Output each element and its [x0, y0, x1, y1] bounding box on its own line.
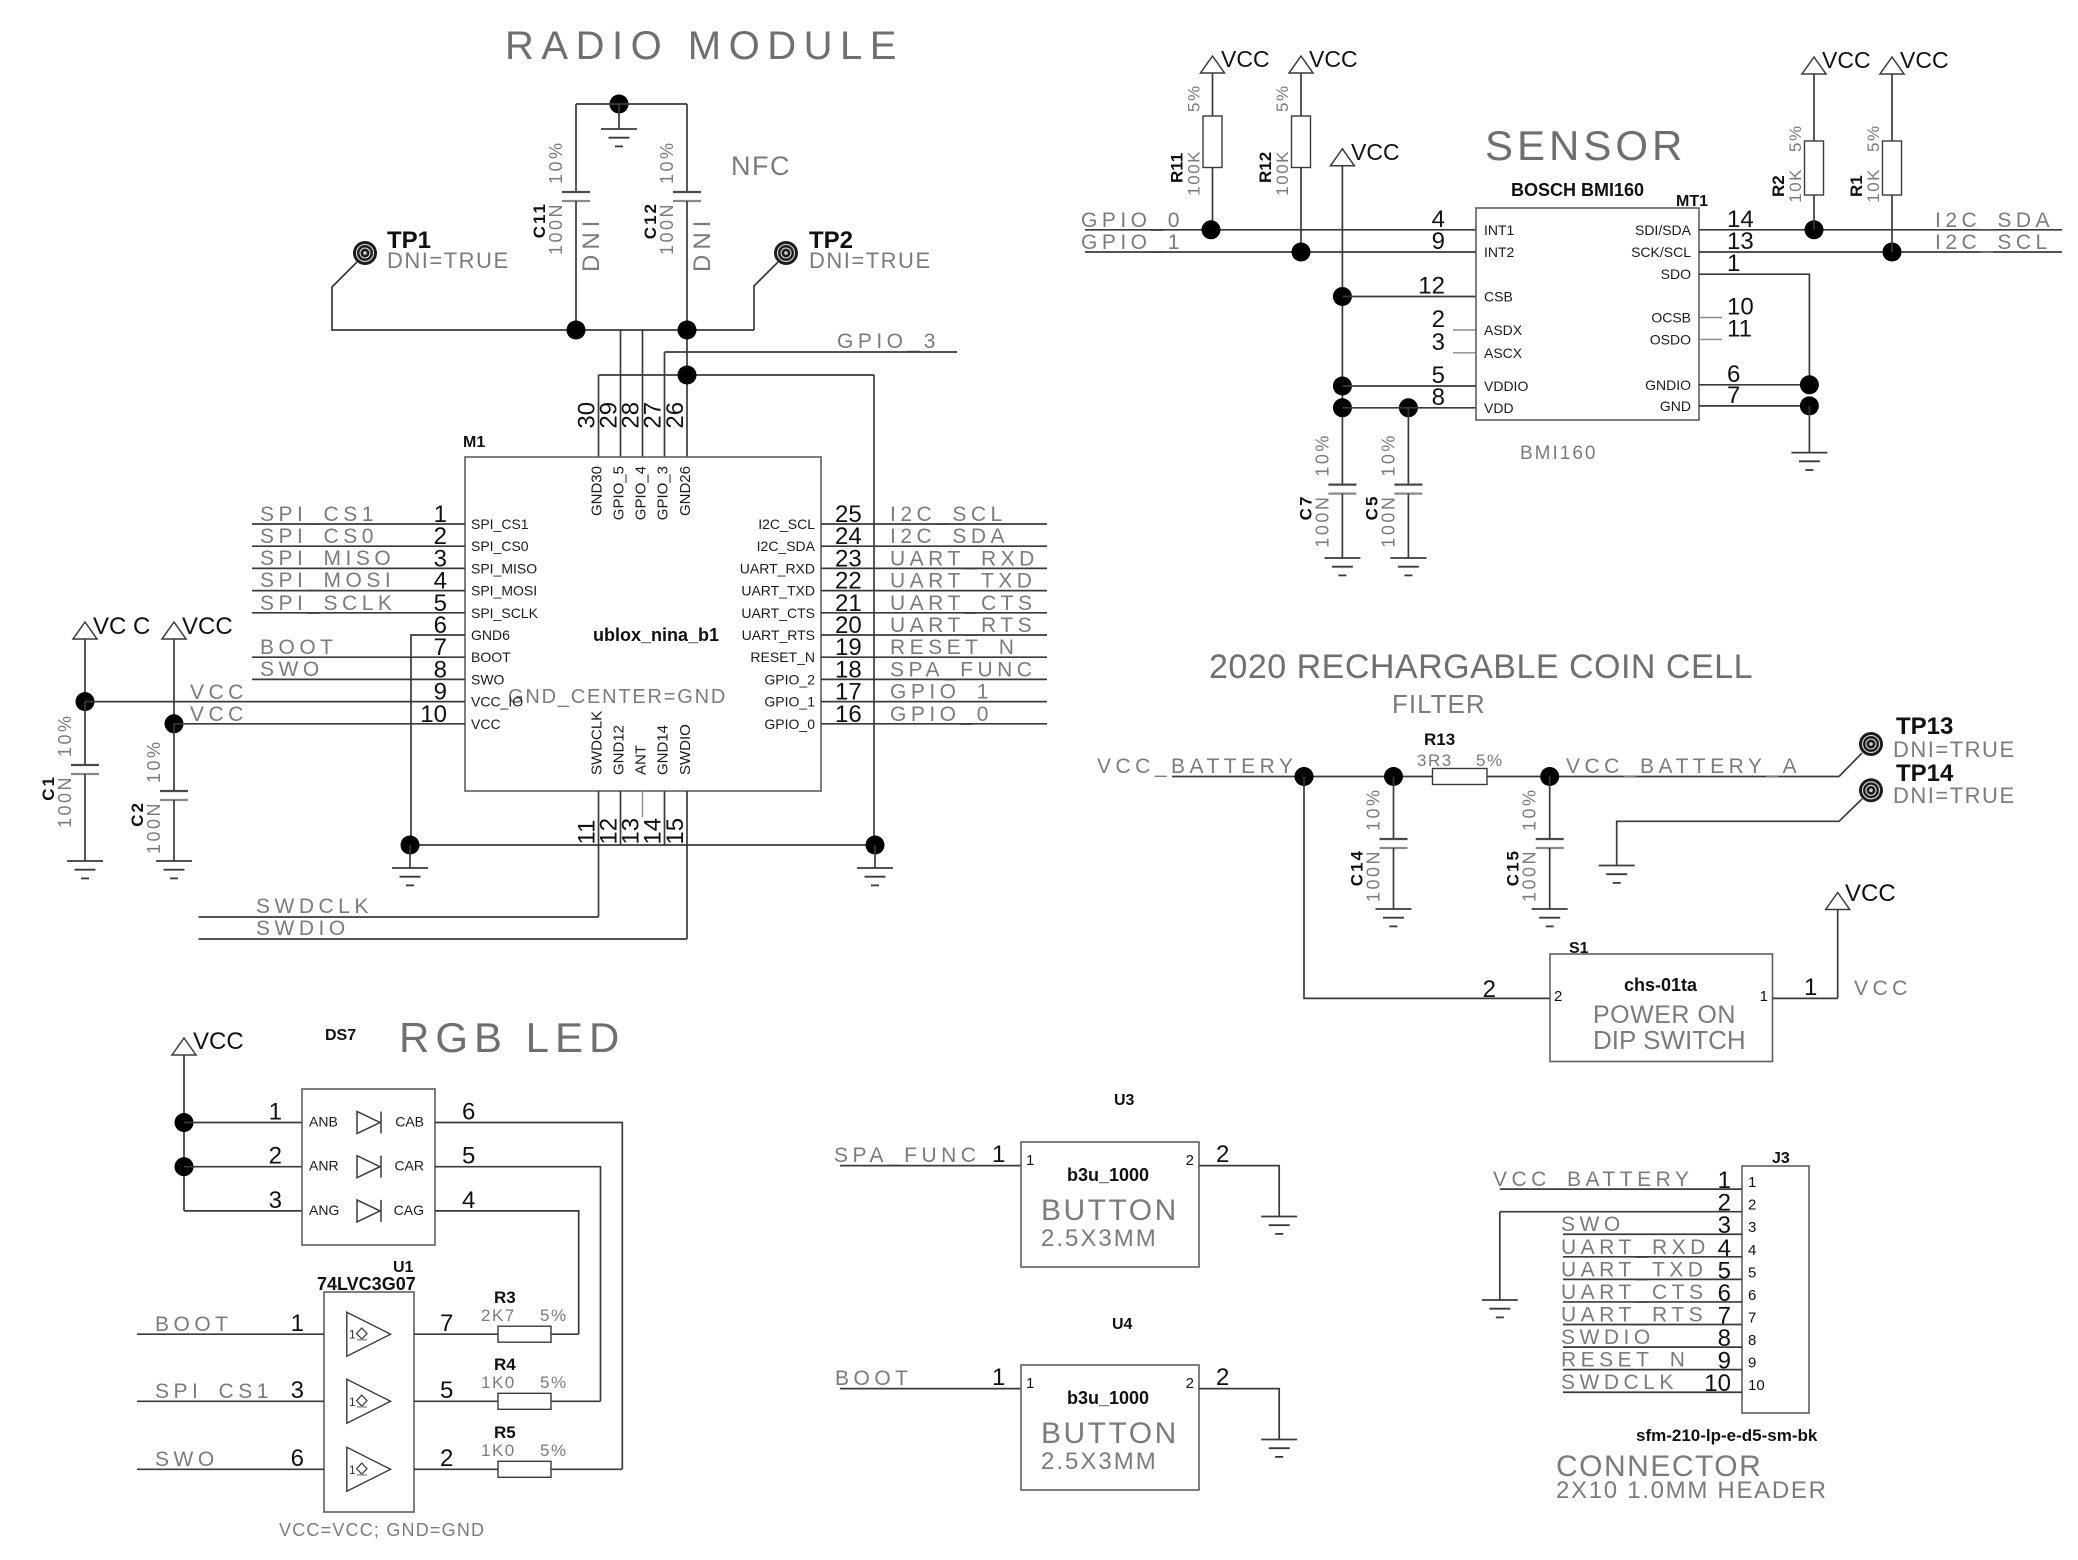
svg-text:ANG: ANG	[309, 1202, 339, 1218]
resistor R3	[481, 1288, 579, 1342]
svg-text:RESET_N: RESET_N	[890, 636, 1018, 659]
svg-text:BUTTON: BUTTON	[1041, 1194, 1179, 1227]
switch S1 chs-01ta POWER ON DIP SWITCH	[1483, 940, 1773, 1062]
DS7 pin names, numbers and diodes	[269, 1099, 476, 1222]
svg-text:1: 1	[1760, 988, 1768, 1005]
svg-text:3: 3	[269, 1187, 282, 1214]
svg-text:CSB: CSB	[1484, 289, 1513, 305]
svg-text:1: 1	[349, 1328, 356, 1342]
svg-text:SWDIO: SWDIO	[1561, 1326, 1655, 1349]
MT1 pin names and numbers	[1418, 206, 1753, 416]
svg-text:VCC: VCC	[193, 1028, 244, 1055]
module M1 ublox_nina_b1	[463, 434, 821, 791]
svg-text:BOOT: BOOT	[471, 649, 511, 665]
svg-text:2: 2	[1186, 1152, 1194, 1169]
svg-text:SWDCLK: SWDCLK	[256, 895, 373, 918]
net I2C_SDA (right of M1)	[821, 525, 1047, 548]
svg-text:2: 2	[1483, 976, 1496, 1003]
svg-text:VCC: VCC	[190, 681, 248, 704]
net GPIO_3	[665, 330, 958, 457]
svg-text:10K: 10K	[1786, 168, 1805, 203]
svg-text:74LVC3G07: 74LVC3G07	[317, 1274, 416, 1294]
svg-text:VCC: VCC	[1845, 880, 1896, 907]
net UART_RXD (right of M1)	[821, 547, 1047, 570]
svg-text:b3u_1000: b3u_1000	[1067, 1388, 1149, 1408]
wire SDO	[1699, 274, 1809, 385]
svg-text:6: 6	[1748, 1287, 1756, 1304]
svg-text:SCK/SCL: SCK/SCL	[1631, 244, 1691, 260]
test point TP14	[1859, 760, 2016, 808]
ground (TP14)	[1599, 865, 1635, 867]
svg-text:RGB LED: RGB LED	[399, 1014, 625, 1061]
svg-text:UART_CTS: UART_CTS	[890, 592, 1036, 615]
wire CAB to R5	[435, 1123, 622, 1470]
svg-text:ANT: ANT	[633, 745, 650, 775]
svg-text:1: 1	[349, 1463, 356, 1477]
svg-text:SWO: SWO	[471, 671, 505, 687]
wire VCC to M1 pin9	[76, 692, 466, 711]
wire U3 pin2 to ground	[1199, 1141, 1279, 1217]
svg-text:2: 2	[1216, 1364, 1229, 1391]
svg-text:VCC: VCC	[190, 703, 248, 726]
svg-text:M1: M1	[463, 434, 485, 451]
svg-text:I2C_SCL: I2C_SCL	[1935, 231, 2052, 254]
svg-text:12: 12	[1418, 273, 1445, 300]
button U3 b3u_1000	[1021, 1092, 1199, 1267]
power VCC (C2)	[162, 613, 233, 724]
svg-text:10%: 10%	[657, 140, 677, 184]
svg-text:SENSOR: SENSOR	[1485, 122, 1686, 169]
ground (C1)	[67, 860, 103, 862]
net BOOT (U1 pin1)	[137, 1310, 324, 1337]
net GPIO_0 (right of M1)	[821, 703, 1047, 726]
svg-text:1: 1	[992, 1141, 1005, 1168]
svg-text:GPIO_0: GPIO_0	[764, 716, 815, 732]
svg-text:R4: R4	[494, 1355, 516, 1374]
svg-text:RESET_N: RESET_N	[750, 649, 815, 665]
svg-text:10%: 10%	[546, 140, 566, 184]
capacitor C1	[39, 702, 99, 861]
capacitor C14	[1348, 777, 1408, 910]
svg-text:VCC: VCC	[1854, 977, 1912, 1000]
resistor R12	[1256, 46, 1358, 252]
ground (C14)	[1376, 908, 1412, 910]
svg-text:FILTER: FILTER	[1392, 689, 1486, 719]
resistor R4	[481, 1355, 601, 1409]
svg-text:8: 8	[1432, 384, 1445, 411]
svg-text:SPI_CS1: SPI_CS1	[471, 516, 529, 532]
svg-text:10K: 10K	[1864, 168, 1883, 203]
svg-text:3R3: 3R3	[1417, 751, 1453, 770]
svg-text:6: 6	[462, 1099, 475, 1126]
wire NFC top rail	[576, 103, 687, 105]
svg-text:1: 1	[1026, 1152, 1034, 1169]
svg-text:DNI=TRUE: DNI=TRUE	[387, 248, 510, 273]
svg-text:1: 1	[1804, 974, 1817, 1001]
svg-text:GPIO_1: GPIO_1	[764, 694, 815, 710]
net UART_CTS (right of M1)	[821, 592, 1047, 615]
wire U1 pin7 to R3	[414, 1310, 498, 1337]
net SPI_CS0 (M1 pin2)	[252, 525, 465, 548]
svg-text:SWO: SWO	[1561, 1213, 1625, 1236]
svg-text:26: 26	[662, 402, 689, 429]
svg-text:SWDIO: SWDIO	[256, 917, 350, 940]
svg-text:7: 7	[1727, 382, 1740, 409]
connector J3	[1556, 1150, 1828, 1504]
test point TP1	[353, 227, 510, 273]
svg-text:I2C_SDA: I2C_SDA	[890, 525, 1009, 548]
svg-text:GND12: GND12	[611, 725, 628, 775]
svg-text:RESET_N: RESET_N	[1561, 1349, 1689, 1372]
svg-text:100N: 100N	[1520, 849, 1540, 902]
svg-text:DNI=TRUE: DNI=TRUE	[1893, 783, 2016, 808]
net SWDCLK (pin11)	[199, 791, 599, 918]
svg-text:R5: R5	[494, 1423, 516, 1442]
svg-text:100N: 100N	[546, 202, 566, 255]
svg-text:4: 4	[1748, 1242, 1756, 1259]
svg-text:SWDCLK: SWDCLK	[589, 711, 606, 775]
svg-text:10%: 10%	[1312, 433, 1332, 477]
svg-text:UART_TXD: UART_TXD	[890, 570, 1036, 593]
svg-text:MT1: MT1	[1676, 193, 1708, 210]
junction dots NFC rail	[567, 321, 586, 340]
test point TP13	[1859, 713, 2016, 762]
svg-text:100N: 100N	[1364, 849, 1384, 902]
svg-text:ASDX: ASDX	[1484, 322, 1523, 338]
wire ASCX stub	[1453, 352, 1476, 354]
net VCC_BATTERY	[1097, 755, 1433, 786]
svg-text:VC C: VC C	[93, 613, 150, 640]
net BOOT (button U4)	[835, 1364, 1021, 1391]
svg-text:BUTTON: BUTTON	[1041, 1417, 1179, 1450]
svg-text:I2C_SDA: I2C_SDA	[1935, 209, 2054, 232]
svg-text:1: 1	[291, 1310, 304, 1337]
net VCC_BATTERY_A	[1487, 755, 1839, 786]
M1 pin names and numbers	[420, 402, 861, 845]
svg-text:1: 1	[1727, 250, 1740, 277]
ground (M1 left)	[392, 845, 428, 885]
wire OCSB stub	[1699, 317, 1722, 319]
svg-text:VCC=VCC; GND=GND: VCC=VCC; GND=GND	[279, 1520, 485, 1540]
svg-text:GND26: GND26	[677, 466, 694, 516]
ground (C15)	[1532, 908, 1568, 910]
svg-text:U4: U4	[1112, 1316, 1133, 1333]
svg-text:VCC: VCC	[1900, 47, 1949, 73]
svg-text:GPIO_1: GPIO_1	[890, 681, 993, 704]
svg-text:BMI160: BMI160	[1520, 443, 1597, 464]
svg-text:5%: 5%	[1273, 84, 1292, 112]
svg-text:VCC_BATTERY: VCC_BATTERY	[1493, 1168, 1693, 1191]
svg-text:SPA_FUNC: SPA_FUNC	[834, 1144, 980, 1167]
ground (M1 right)	[857, 845, 893, 885]
svg-text:SPI_MISO: SPI_MISO	[471, 560, 537, 576]
wire VDDIO	[1333, 377, 1476, 396]
wire GND14 (pin14)	[664, 791, 666, 845]
svg-text:VCC: VCC	[182, 613, 233, 640]
wire ASDX stub	[1453, 329, 1476, 331]
svg-text:SPI_CS1: SPI_CS1	[260, 503, 378, 526]
wire CSB	[1333, 287, 1476, 306]
svg-text:1K0: 1K0	[481, 1373, 516, 1392]
svg-text:INT2: INT2	[1484, 244, 1515, 260]
wire CAG to R3	[435, 1211, 579, 1334]
svg-text:BOSCH BMI160: BOSCH BMI160	[1511, 180, 1644, 200]
net RESET_N (right of M1)	[821, 636, 1047, 659]
svg-text:1: 1	[1748, 1174, 1756, 1191]
svg-text:9: 9	[1748, 1355, 1756, 1372]
svg-text:10%: 10%	[1520, 787, 1540, 831]
wire to TP13	[1839, 753, 1862, 777]
svg-text:UART_RXD: UART_RXD	[1561, 1236, 1710, 1259]
svg-text:2.5X3MM: 2.5X3MM	[1041, 1448, 1158, 1475]
svg-text:ASCX: ASCX	[1484, 345, 1523, 361]
wire VDD	[1333, 398, 1476, 417]
svg-text:SWDIO: SWDIO	[677, 724, 694, 775]
svg-text:RADIO MODULE: RADIO MODULE	[505, 24, 904, 68]
wire LED anodes	[175, 1113, 303, 1211]
svg-text:DNI: DNI	[689, 216, 716, 272]
svg-text:I2C_SDA: I2C_SDA	[757, 538, 816, 554]
svg-text:GPIO_0: GPIO_0	[1081, 209, 1184, 232]
svg-text:VDDIO: VDDIO	[1484, 378, 1528, 394]
svg-text:5%: 5%	[1864, 124, 1883, 152]
svg-text:2: 2	[269, 1143, 282, 1170]
svg-text:10%: 10%	[144, 739, 164, 783]
svg-text:SDO: SDO	[1661, 266, 1691, 282]
LED DS7	[302, 1027, 435, 1245]
wire GND (MT1)	[1699, 396, 1819, 415]
wire ANT stub (pin13)	[642, 791, 644, 817]
svg-text:7: 7	[440, 1310, 453, 1337]
svg-text:b3u_1000: b3u_1000	[1067, 1165, 1149, 1185]
wire VCC to M1 pin10	[165, 714, 466, 733]
svg-text:GPIO_0: GPIO_0	[890, 703, 993, 726]
wire pin28 GPIO_4	[642, 330, 644, 457]
svg-text:4: 4	[462, 1187, 475, 1214]
svg-text:3: 3	[1432, 329, 1445, 356]
power VCC (C1)	[73, 613, 150, 702]
wire OSDO stub	[1699, 338, 1722, 340]
svg-text:VCC: VCC	[471, 716, 501, 732]
net SPI_SCLK (M1 pin5)	[252, 592, 465, 615]
wire U1 pin5 to R4	[414, 1377, 498, 1404]
svg-text:UART_RXD: UART_RXD	[890, 547, 1039, 570]
svg-text:2020 RECHARGABLE COIN CELL: 2020 RECHARGABLE COIN CELL	[1209, 648, 1753, 686]
svg-text:BOOT: BOOT	[260, 636, 338, 659]
svg-text:5%: 5%	[540, 1373, 568, 1392]
wire battery to switch S1 pin2	[1304, 777, 1550, 999]
U1 buffer symbols	[347, 1312, 391, 1491]
svg-text:7: 7	[1748, 1310, 1756, 1327]
svg-text:1: 1	[269, 1099, 282, 1126]
svg-text:BOOT: BOOT	[835, 1367, 913, 1390]
capacitor C7	[1296, 433, 1356, 558]
svg-text:100N: 100N	[1312, 495, 1332, 548]
ground (U3)	[1261, 1216, 1297, 1218]
svg-text:VCC: VCC	[1221, 46, 1270, 72]
net SPI_MOSI (M1 pin4)	[252, 569, 465, 592]
net SPI_MISO (M1 pin3)	[252, 547, 465, 570]
svg-text:10%: 10%	[1364, 787, 1384, 831]
net SPA_FUNC (button U3)	[834, 1141, 1021, 1168]
svg-text:NFC: NFC	[731, 151, 791, 181]
svg-text:UART_RXD: UART_RXD	[740, 560, 815, 576]
svg-text:ANB: ANB	[309, 1114, 338, 1130]
net SWDIO (pin15)	[199, 791, 688, 940]
ground (C2)	[156, 860, 192, 862]
svg-text:GND14: GND14	[655, 725, 672, 775]
wire GND12 (pin12)	[620, 791, 622, 845]
test point TP2	[774, 227, 932, 273]
svg-text:5%: 5%	[1476, 751, 1504, 770]
wire pin29 GPIO_5	[620, 330, 622, 457]
net SWO (M1 pin8)	[252, 658, 465, 681]
resistor R11	[1168, 46, 1270, 230]
net SPI_CS1 (U1 pin3)	[137, 1377, 324, 1404]
J3 pin rows	[1493, 1167, 1765, 1397]
svg-text:GND6: GND6	[471, 627, 510, 643]
sensor MT1 BOSCH BMI160	[1476, 180, 1708, 464]
svg-text:OSDO: OSDO	[1650, 331, 1691, 347]
wire U1 pin2 to R5	[414, 1445, 498, 1472]
net I2C_SCL (right of M1)	[821, 503, 1047, 526]
net GPIO_1 to INT2	[1081, 231, 1476, 262]
resistor R2	[1769, 47, 1871, 230]
wire CAR to R4	[435, 1167, 601, 1402]
net UART_RTS (right of M1)	[821, 614, 1047, 637]
ground (U4)	[1261, 1439, 1297, 1441]
svg-text:6: 6	[291, 1445, 304, 1472]
resistor R1	[1847, 47, 1949, 252]
svg-text:SDI/SDA: SDI/SDA	[1635, 222, 1692, 238]
svg-text:GPIO_4: GPIO_4	[633, 466, 650, 520]
svg-text:2X10 1.0MM HEADER: 2X10 1.0MM HEADER	[1556, 1477, 1828, 1504]
ground (C7)	[1324, 557, 1360, 559]
svg-text:100N: 100N	[657, 202, 677, 255]
svg-text:SWO: SWO	[155, 1448, 219, 1471]
net GPIO_1 (right of M1)	[821, 681, 1047, 704]
capacitor C5	[1362, 408, 1422, 558]
svg-text:U3: U3	[1114, 1092, 1135, 1109]
svg-text:SPI_MOSI: SPI_MOSI	[471, 583, 537, 599]
svg-text:5%: 5%	[540, 1441, 568, 1460]
wire U4 pin2 to ground	[1199, 1364, 1279, 1440]
svg-text:SWDCLK: SWDCLK	[1561, 1371, 1678, 1394]
wire GND6 (M1 pin6)	[411, 635, 465, 845]
svg-text:GND: GND	[1660, 398, 1691, 414]
svg-text:VCC_BATTERY: VCC_BATTERY	[1097, 755, 1297, 778]
svg-text:CAR: CAR	[394, 1158, 424, 1174]
wire S1 pin1 to VCC	[1773, 910, 1838, 1001]
svg-text:VCC: VCC	[1351, 139, 1400, 165]
svg-text:3: 3	[1748, 1219, 1756, 1236]
capacitor C2	[128, 724, 188, 861]
svg-text:BOOT: BOOT	[155, 1313, 233, 1336]
svg-text:DS7: DS7	[325, 1027, 356, 1044]
ground (J3)	[1482, 1299, 1518, 1301]
wire TP14 to ground	[1617, 799, 1862, 866]
svg-text:9: 9	[1432, 228, 1445, 255]
svg-text:OCSB: OCSB	[1651, 310, 1691, 326]
svg-text:1: 1	[1026, 1375, 1034, 1392]
svg-text:SPI_SCLK: SPI_SCLK	[260, 592, 396, 615]
svg-text:CAB: CAB	[395, 1114, 424, 1130]
svg-text:GPIO_1: GPIO_1	[1081, 231, 1184, 254]
svg-text:UART_CTS: UART_CTS	[1561, 1281, 1707, 1304]
svg-text:GND_CENTER=GND: GND_CENTER=GND	[508, 686, 727, 708]
svg-text:3: 3	[291, 1377, 304, 1404]
svg-text:J3: J3	[1772, 1150, 1790, 1167]
svg-text:I2C_SCL: I2C_SCL	[758, 516, 815, 532]
svg-text:sfm-210-lp-e-d5-sm-bk: sfm-210-lp-e-d5-sm-bk	[1636, 1426, 1818, 1445]
svg-text:SPI_CS0: SPI_CS0	[260, 525, 378, 548]
net SPI_CS1 (M1 pin1)	[252, 503, 465, 526]
svg-text:11: 11	[1727, 315, 1752, 342]
svg-text:15: 15	[662, 818, 689, 845]
svg-text:R3: R3	[494, 1288, 516, 1307]
svg-text:GNDIO: GNDIO	[1645, 377, 1691, 393]
svg-text:SPI_CS1: SPI_CS1	[155, 1380, 273, 1403]
svg-text:100N: 100N	[55, 775, 75, 828]
svg-text:GPIO_3: GPIO_3	[837, 330, 940, 353]
svg-text:VDD: VDD	[1484, 400, 1514, 416]
wire J3 pin2 to ground	[1499, 1212, 1501, 1300]
svg-text:10%: 10%	[55, 713, 75, 757]
svg-text:R13: R13	[1424, 730, 1455, 749]
svg-text:SPI_SCLK: SPI_SCLK	[471, 605, 539, 621]
svg-text:SPI_MOSI: SPI_MOSI	[260, 569, 395, 592]
svg-text:2: 2	[440, 1445, 453, 1472]
svg-text:UART_RTS: UART_RTS	[742, 627, 815, 643]
svg-text:TP13: TP13	[1896, 713, 1953, 740]
net SWO (U1 pin6)	[137, 1445, 324, 1472]
svg-text:5: 5	[462, 1143, 475, 1170]
net UART_TXD (right of M1)	[821, 570, 1047, 593]
svg-text:10%: 10%	[1378, 433, 1398, 477]
buffer U1 74LVC3G07	[279, 1259, 485, 1540]
net I2C_SCL	[1699, 231, 2062, 262]
svg-text:1K0: 1K0	[481, 1441, 516, 1460]
svg-text:8: 8	[1748, 1332, 1756, 1349]
svg-text:SPI_MISO: SPI_MISO	[260, 547, 395, 570]
svg-text:10: 10	[1704, 1370, 1731, 1397]
svg-text:UART_RTS: UART_RTS	[1561, 1304, 1707, 1327]
resistor R5	[481, 1423, 622, 1477]
svg-text:UART_TXD: UART_TXD	[741, 583, 815, 599]
svg-text:2: 2	[1186, 1375, 1194, 1392]
svg-text:2: 2	[1216, 1141, 1229, 1168]
svg-text:2.5X3MM: 2.5X3MM	[1041, 1225, 1158, 1252]
svg-text:SWO: SWO	[260, 658, 324, 681]
svg-text:DNI=TRUE: DNI=TRUE	[809, 248, 932, 273]
net I2C_SDA	[1699, 209, 2062, 239]
svg-text:UART_RTS: UART_RTS	[890, 614, 1036, 637]
resistor R13	[1417, 730, 1504, 785]
svg-text:SPA_FUNC: SPA_FUNC	[890, 658, 1036, 681]
svg-text:5: 5	[440, 1377, 453, 1404]
node NFC ground junction	[610, 95, 629, 114]
svg-text:GPIO_2: GPIO_2	[764, 671, 815, 687]
wire GNDIO	[1699, 375, 1819, 394]
svg-text:CAG: CAG	[394, 1202, 424, 1218]
wire TP1 to NFC rail	[332, 262, 754, 330]
wire GND30-GND26 net	[599, 366, 875, 846]
svg-text:UART_TXD: UART_TXD	[1561, 1258, 1707, 1281]
svg-text:INT1: INT1	[1484, 222, 1515, 238]
svg-text:DNI=TRUE: DNI=TRUE	[1893, 737, 2016, 762]
svg-text:chs-01ta: chs-01ta	[1624, 975, 1698, 995]
svg-text:10: 10	[1748, 1377, 1765, 1394]
